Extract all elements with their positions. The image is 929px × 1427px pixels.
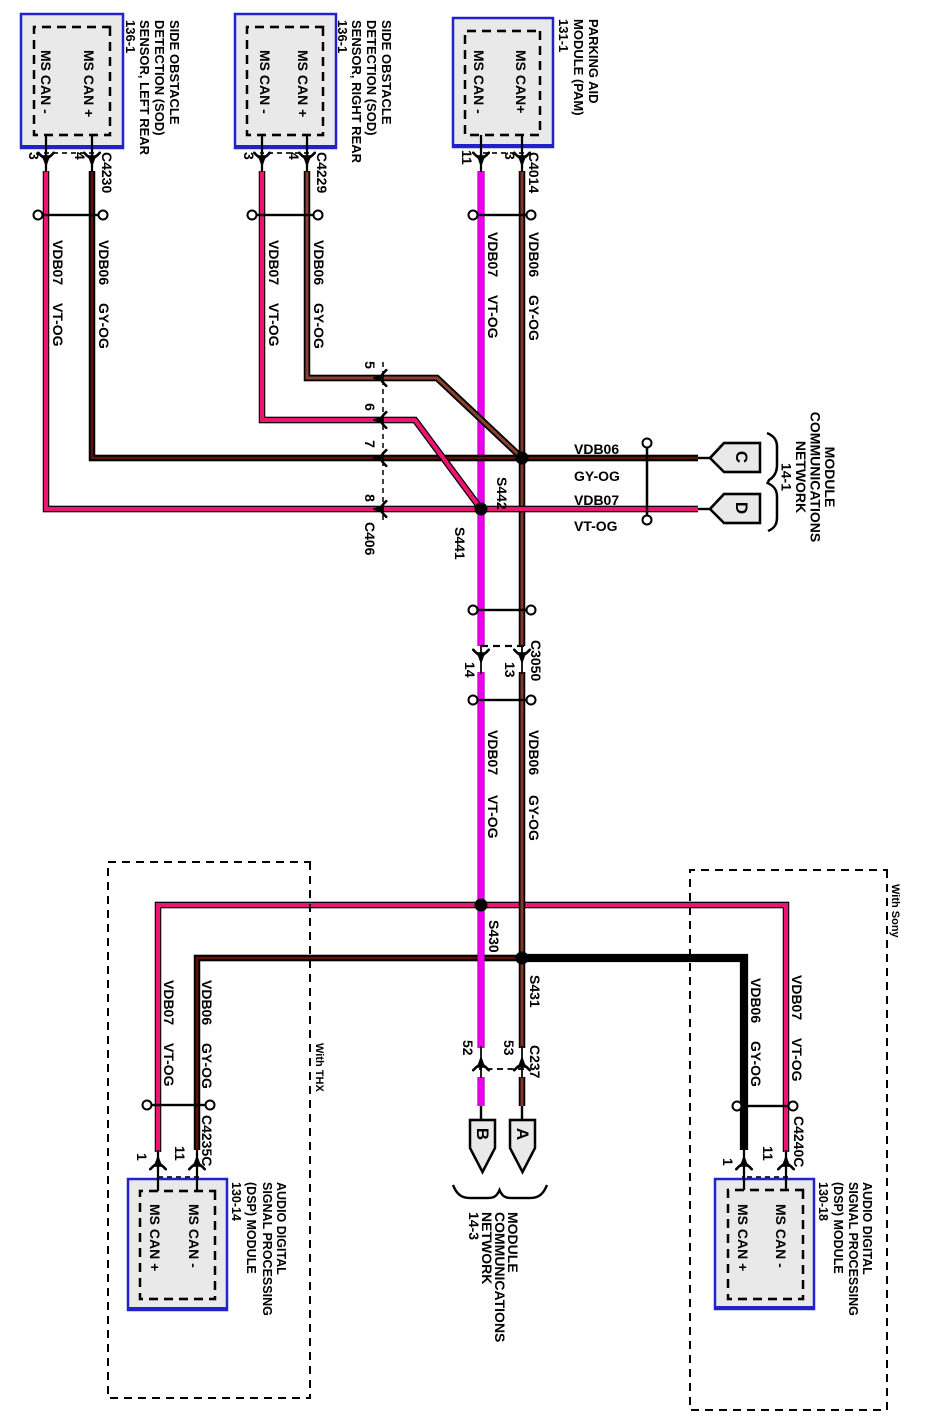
svg-text:VT-OG: VT-OG xyxy=(266,303,282,347)
wire VDB06 SOD left rear to C (dark) xyxy=(92,171,698,458)
wire VDB06 branch to Sony DSP (black) xyxy=(522,958,744,1150)
dashed group box With Sony xyxy=(690,870,887,1410)
svg-text:1: 1 xyxy=(720,1158,736,1166)
svg-text:VDB07: VDB07 xyxy=(485,730,501,775)
svg-text:11: 11 xyxy=(459,150,475,165)
svg-text:8: 8 xyxy=(362,494,378,502)
svg-text:DETECTION (SOD): DETECTION (SOD) xyxy=(364,20,379,136)
svg-text:SIDE OBSTACLE: SIDE OBSTACLE xyxy=(379,20,394,125)
svg-text:DETECTION (SOD): DETECTION (SOD) xyxy=(152,20,167,136)
svg-text:VDB06: VDB06 xyxy=(574,441,619,457)
svg-text:3: 3 xyxy=(502,152,518,160)
svg-text:B: B xyxy=(473,1128,492,1140)
svg-text:VT-OG: VT-OG xyxy=(574,518,618,534)
wire VDB07 trunk PAM to B (magenta) xyxy=(477,171,484,1106)
svg-text:MS CAN +: MS CAN + xyxy=(735,1204,751,1271)
svg-text:130-18: 130-18 xyxy=(816,1182,830,1221)
svg-text:131-1: 131-1 xyxy=(556,19,571,52)
svg-text:C4229: C4229 xyxy=(314,152,330,193)
svg-text:1: 1 xyxy=(134,1153,150,1161)
wire VDB07 SOD right rear diagonal to S441 (pink) xyxy=(262,171,481,509)
svg-text:VDB06: VDB06 xyxy=(96,240,112,285)
svg-text:VDB06: VDB06 xyxy=(526,232,542,277)
svg-text:MS CAN +: MS CAN + xyxy=(147,1204,163,1271)
splice S441 xyxy=(475,503,488,516)
svg-text:C4230: C4230 xyxy=(99,152,115,193)
svg-text:D: D xyxy=(732,502,751,514)
svg-text:VT-OG: VT-OG xyxy=(789,1038,805,1082)
twisted pair symbol left of C3050 xyxy=(469,606,536,615)
dashed group box With THX xyxy=(108,862,310,1398)
wire VDB06 trunk PAM to A (brown) xyxy=(519,171,526,1106)
connector C4014 pins at PAM xyxy=(459,135,542,193)
label MODULE COMMUNICATIONS NETWORK 14-1 xyxy=(779,412,839,542)
svg-text:C237: C237 xyxy=(527,1045,543,1079)
twisted pair symbol right of C3050 xyxy=(469,696,536,705)
svg-text:VT-OG: VT-OG xyxy=(485,295,501,339)
svg-text:With THX: With THX xyxy=(313,1043,325,1092)
svg-text:136-1: 136-1 xyxy=(335,20,350,53)
svg-text:(DSP) MODULE: (DSP) MODULE xyxy=(831,1182,845,1274)
svg-text:C4014: C4014 xyxy=(526,152,542,193)
label MODULE COMMUNICATIONS NETWORK 14-3 xyxy=(466,1212,521,1342)
svg-text:GY-OG: GY-OG xyxy=(199,1043,215,1089)
twisted pair symbol at THX DSP pigtail xyxy=(143,1101,215,1110)
svg-text:C: C xyxy=(732,451,751,463)
svg-text:GY-OG: GY-OG xyxy=(526,295,542,341)
svg-text:PARKING AID: PARKING AID xyxy=(586,19,601,104)
svg-text:VDB06: VDB06 xyxy=(199,980,215,1025)
svg-text:C4235C: C4235C xyxy=(199,1115,215,1166)
svg-text:VDB06: VDB06 xyxy=(526,730,542,775)
svg-text:C406: C406 xyxy=(362,522,378,556)
svg-text:4: 4 xyxy=(286,152,302,160)
svg-text:MS CAN +: MS CAN + xyxy=(295,50,311,117)
connector C4235C pins at THX DSP xyxy=(134,1115,215,1191)
svg-text:VDB07: VDB07 xyxy=(574,492,619,508)
svg-text:3: 3 xyxy=(241,152,257,160)
svg-text:With Sony: With Sony xyxy=(889,884,901,939)
splice S430 xyxy=(475,899,488,912)
splice S442 xyxy=(516,452,529,465)
svg-text:C4240C: C4240C xyxy=(791,1116,807,1167)
twisted pair symbol on C/D wires xyxy=(643,439,652,525)
svg-text:MS CAN -: MS CAN - xyxy=(257,50,273,114)
svg-text:MS CAN -: MS CAN - xyxy=(186,1204,202,1268)
svg-text:SIGNAL PROCESSING: SIGNAL PROCESSING xyxy=(846,1182,860,1316)
twisted pair symbol at SOD right rear pigtail xyxy=(248,211,323,220)
svg-text:14: 14 xyxy=(462,662,478,678)
connector A terminal xyxy=(510,1120,535,1172)
wire VDB07 branch to Sony DSP (pink) xyxy=(481,905,786,1152)
svg-text:SIGNAL PROCESSING: SIGNAL PROCESSING xyxy=(260,1182,274,1316)
wire VDB07 branch to THX DSP (pink) xyxy=(158,905,481,1152)
in-line connector C406 xyxy=(362,361,386,556)
connector C terminal xyxy=(698,443,760,472)
svg-text:MS CAN +: MS CAN + xyxy=(81,50,97,117)
svg-text:130-14: 130-14 xyxy=(229,1182,243,1221)
svg-text:GY-OG: GY-OG xyxy=(526,795,542,841)
svg-text:14-1: 14-1 xyxy=(779,463,795,491)
svg-text:GY-OG: GY-OG xyxy=(311,303,327,349)
connector C4229 pins at SOD right rear xyxy=(241,135,330,193)
wire VDB07 SOD left rear to D (pink) xyxy=(46,171,698,509)
svg-text:GY-OG: GY-OG xyxy=(574,468,620,484)
in-line connector C237 xyxy=(460,1040,543,1079)
svg-text:VDB07: VDB07 xyxy=(266,240,282,285)
svg-text:4: 4 xyxy=(72,152,88,160)
connector C4240C pins at Sony DSP xyxy=(720,1116,807,1190)
svg-text:VDB07: VDB07 xyxy=(789,975,805,1020)
svg-text:VDB06: VDB06 xyxy=(311,240,327,285)
wire VDB06 branch to THX DSP (dark) xyxy=(197,958,522,1150)
svg-text:S442: S442 xyxy=(494,477,510,510)
wire VDB06 SOD right rear diagonal to S442 (dark brown) xyxy=(307,171,522,458)
svg-text:VDB06: VDB06 xyxy=(748,978,764,1023)
wire A terminal stub xyxy=(521,1106,523,1121)
svg-text:C3050: C3050 xyxy=(528,640,544,681)
svg-text:MS CAN+: MS CAN+ xyxy=(513,50,529,113)
svg-text:SIDE OBSTACLE: SIDE OBSTACLE xyxy=(167,20,182,125)
svg-text:GY-OG: GY-OG xyxy=(96,303,112,349)
svg-text:SENSOR, RIGHT REAR: SENSOR, RIGHT REAR xyxy=(349,20,364,164)
svg-text:52: 52 xyxy=(460,1040,476,1056)
svg-text:VT-OG: VT-OG xyxy=(50,303,66,347)
svg-text:S431: S431 xyxy=(527,975,543,1008)
svg-text:AUDIO DIGITAL: AUDIO DIGITAL xyxy=(274,1182,288,1275)
connector C4230 pins at SOD left rear xyxy=(26,135,115,193)
twisted pair symbol at SOD left rear pigtail xyxy=(34,211,108,220)
brace right of A and B xyxy=(453,1185,547,1198)
twisted pair symbol at PAM pigtail xyxy=(469,211,536,220)
svg-text:11: 11 xyxy=(172,1146,188,1161)
connector B terminal xyxy=(470,1120,495,1172)
module Sony DSP box xyxy=(714,1179,815,1309)
module THX DSP box xyxy=(127,1179,228,1310)
svg-text:GY-OG: GY-OG xyxy=(748,1041,764,1087)
svg-text:S441: S441 xyxy=(452,527,468,560)
svg-text:53: 53 xyxy=(501,1040,517,1056)
svg-text:NETWORK: NETWORK xyxy=(793,441,809,513)
in-line connector C3050 xyxy=(462,640,544,681)
svg-text:S430: S430 xyxy=(486,920,502,953)
brace over C and D xyxy=(767,433,777,531)
module SOD right rear box xyxy=(234,14,337,148)
svg-text:MODULE: MODULE xyxy=(822,447,838,508)
svg-text:3: 3 xyxy=(26,152,42,160)
svg-text:MODULE (PAM): MODULE (PAM) xyxy=(571,19,586,116)
svg-text:7: 7 xyxy=(362,440,378,448)
svg-text:MS CAN -: MS CAN - xyxy=(38,50,54,114)
splice S431 xyxy=(516,952,529,965)
svg-text:5: 5 xyxy=(362,361,378,369)
svg-text:MS CAN -: MS CAN - xyxy=(471,50,487,114)
module SOD left rear box xyxy=(20,14,124,148)
svg-text:VDB07: VDB07 xyxy=(161,980,177,1025)
svg-text:SENSOR, LEFT REAR: SENSOR, LEFT REAR xyxy=(137,20,152,156)
svg-text:VDB07: VDB07 xyxy=(50,240,66,285)
svg-text:13: 13 xyxy=(502,662,518,678)
svg-text:(DSP) MODULE: (DSP) MODULE xyxy=(244,1182,258,1274)
svg-text:A: A xyxy=(513,1128,532,1140)
svg-text:VT-OG: VT-OG xyxy=(161,1043,177,1087)
svg-text:AUDIO DIGITAL: AUDIO DIGITAL xyxy=(860,1182,874,1275)
svg-text:11: 11 xyxy=(760,1146,776,1161)
svg-text:14-3: 14-3 xyxy=(466,1212,482,1240)
svg-text:MS CAN -: MS CAN - xyxy=(773,1204,789,1268)
svg-text:VDB07: VDB07 xyxy=(485,232,501,277)
svg-text:6: 6 xyxy=(362,403,378,411)
svg-text:VT-OG: VT-OG xyxy=(485,795,501,839)
connector D terminal xyxy=(698,494,760,523)
twisted pair symbol at Sony DSP pigtail xyxy=(733,1102,798,1111)
wire B terminal stub xyxy=(480,1106,482,1121)
module PAM box xyxy=(452,18,554,147)
svg-text:136-1: 136-1 xyxy=(123,20,138,53)
svg-text:COMMUNICATIONS: COMMUNICATIONS xyxy=(808,412,824,542)
